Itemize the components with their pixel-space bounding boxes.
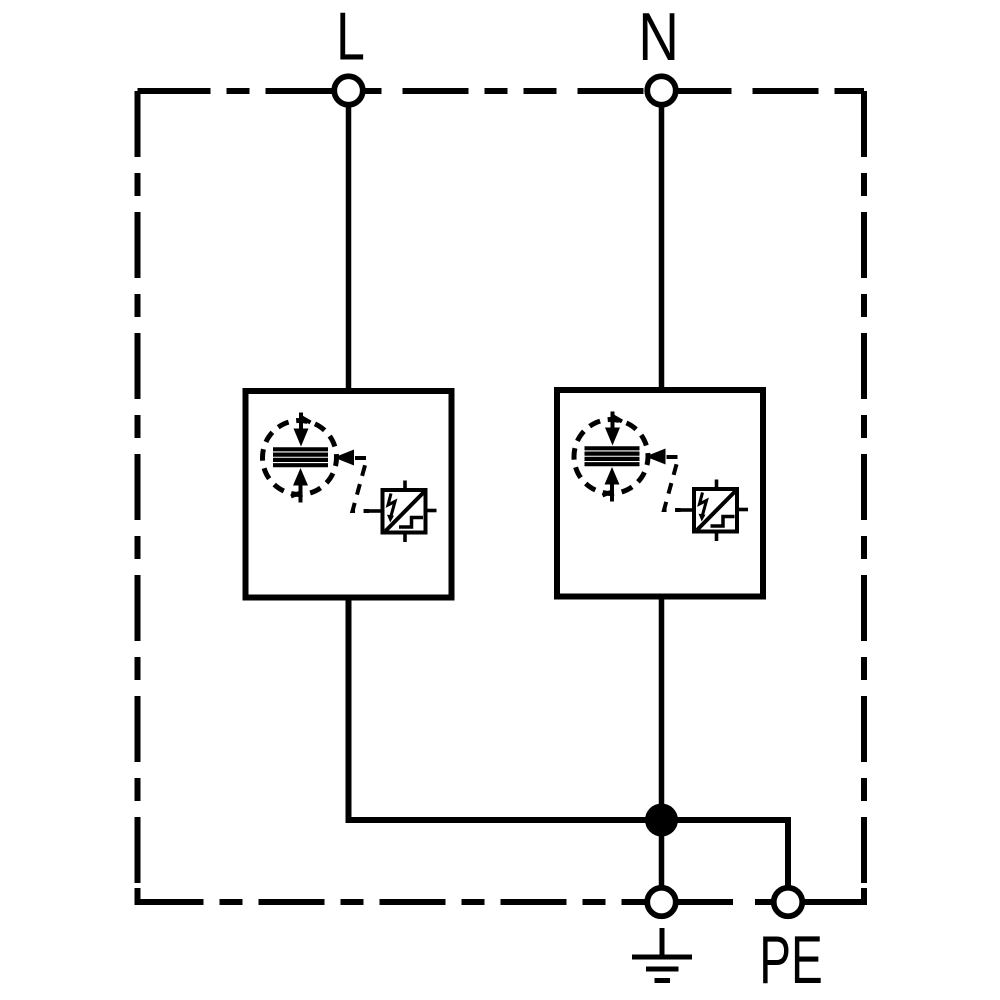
- wire SPD2 bottom to ground terminal: [659, 599, 665, 902]
- SPD1 spark gap electrode stack: [273, 449, 328, 465]
- SPD2 trigger arrow at spark gap: [646, 449, 666, 465]
- SPD2 spark gap dashed circle: [574, 420, 648, 494]
- wire SPD1 bottom to junction: [349, 599, 662, 820]
- terminal N: [647, 76, 676, 105]
- SPD2 box: [557, 390, 763, 597]
- SPD1 dashed trigger line: [353, 458, 370, 511]
- SPD2 trigger device box: [694, 489, 737, 532]
- SPD2 trigger device step waveform: [711, 517, 735, 527]
- SPD1 trigger arrow at spark gap: [334, 450, 354, 466]
- SPD2 spark gap top arrow: [605, 412, 622, 446]
- SPD1 spark gap dashed circle: [263, 421, 337, 495]
- SPD module 1: [246, 391, 452, 598]
- wire L terminal to SPD1 top: [346, 90, 352, 390]
- terminal L: [334, 76, 363, 105]
- SPD2 spark gap electrode stack: [585, 448, 640, 464]
- SPD1 spark gap bottom arrow: [291, 468, 308, 503]
- wire junction to PE terminal: [662, 820, 789, 902]
- SPD2 trigger device pins: [681, 480, 749, 542]
- svg-text:L: L: [336, 0, 365, 74]
- SPD1 trigger device pins: [369, 481, 437, 543]
- svg-text:PE: PE: [759, 923, 822, 998]
- svg-text:N: N: [638, 0, 679, 75]
- SPD2 spark gap bottom arrow: [603, 467, 620, 502]
- enclosure dash-dot border: [138, 91, 865, 902]
- terminal PE: [774, 888, 803, 917]
- SPD1 spark gap top arrow: [294, 413, 311, 447]
- SPD module 2: [557, 390, 763, 597]
- SPD1 trigger device box: [383, 490, 426, 533]
- SPD2 dashed trigger line: [664, 457, 681, 510]
- ground symbol: [632, 928, 692, 981]
- SPD1 trigger device lightning bolt: [387, 494, 395, 523]
- SPD2 trigger device lightning bolt: [699, 493, 707, 522]
- SPD1 trigger device step waveform: [399, 518, 423, 528]
- junction node: [645, 804, 678, 837]
- wire N terminal to SPD2 top: [659, 90, 665, 390]
- SPD1 box: [246, 391, 452, 598]
- terminal ground: [647, 888, 676, 917]
